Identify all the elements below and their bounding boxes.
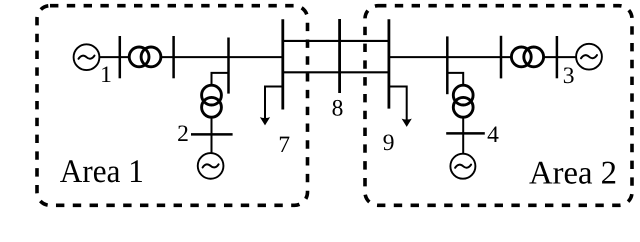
label 3 [564,67,574,83]
transformer T2 [202,85,222,105]
wire: transformer T1 to bus 7 [161,56,283,58]
wire: bus to transformer T4 [447,73,463,85]
label Area 2 [529,162,615,184]
G2 terminal bar [191,133,233,136]
generator G4 [450,154,475,179]
Area 2 boundary (dashed rounded box) [365,6,632,206]
bus bar (G4 connection) [446,36,449,94]
bus bar 8 [338,19,341,93]
label 8 [333,100,343,116]
bus bar 7 [281,19,284,109]
load L7 wire [265,87,283,119]
generator G1 [74,44,100,70]
label 9 [383,134,393,150]
wire: bus to transformer T2 [212,73,229,85]
label 4 [488,127,499,142]
label Area 1 [60,160,142,182]
wire: transformer T3 to generator G3 [543,56,576,58]
bus bar 6 [172,36,175,78]
load L9 arrowhead [402,119,412,127]
transformer T1 [129,47,149,67]
generator G3 [576,44,602,70]
tie line top (bus7-bus8-bus9) [283,40,389,42]
bus bar 10 [500,36,503,79]
wire: bus 9 to transformer T3 [389,56,512,58]
load L9 wire [389,87,407,121]
wire: transformer T4 to generator G4 [462,117,464,154]
Area 1 boundary (dashed rounded box) [37,6,308,206]
label 1 [102,66,110,82]
load L7 arrowhead [260,117,270,125]
bus bar 9 [387,19,390,108]
G4 terminal bar [446,132,485,135]
tie line bottom (bus7-bus8-bus9) [283,71,389,73]
wire: generator G1 to transformer T1 [99,56,129,58]
bus bar 11 [556,36,559,78]
label 2 [178,125,187,141]
label 7 [280,137,290,152]
transformer T3 [511,47,531,67]
bus bar 5 [119,36,122,78]
wire: transformer T2 to generator G2 [211,117,213,153]
transformer T4 [453,85,473,105]
generator G2 [198,153,224,179]
bus bar (G2 connection) [227,38,230,94]
